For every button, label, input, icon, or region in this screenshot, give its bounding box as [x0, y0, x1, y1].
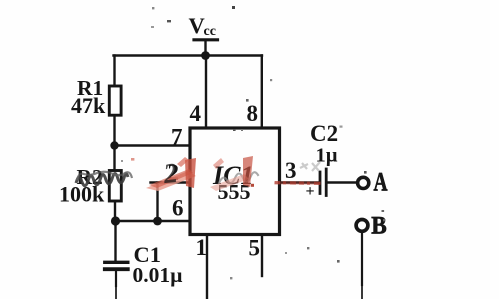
svg-text:A: A	[374, 168, 388, 197]
wire top rail	[114, 54, 263, 56]
terminal B	[356, 220, 368, 232]
wire node to R2	[113, 146, 115, 171]
svg-text:B: B	[371, 211, 387, 240]
svg-text:8: 8	[247, 101, 259, 126]
node junction R2-C1-pin6	[111, 216, 120, 225]
Vcc bar	[194, 38, 218, 41]
node junction pin2 vertical to pin6 wire	[153, 217, 162, 226]
wire C1 to bottom	[115, 271, 117, 286]
node junction R1-R2-pin7	[110, 141, 118, 149]
terminal A	[358, 177, 369, 188]
svg-text:0.01µ: 0.01µ	[133, 263, 184, 287]
wire pin 1 down	[206, 236, 208, 299]
wire B down	[361, 232, 363, 286]
red speck right of 555	[251, 184, 254, 187]
wire pin 2 vertical	[156, 183, 158, 222]
wire R1 branch down from rail	[113, 56, 115, 88]
scan noise specks	[121, 6, 385, 279]
svg-text:4: 4	[190, 101, 202, 126]
wire pin 7 horizontal	[115, 144, 191, 146]
gray cursive overlay on IC1	[219, 172, 258, 183]
Vcc stub	[204, 41, 206, 56]
svg-text:C2: C2	[310, 121, 338, 146]
red watermark swoosh over IC1	[210, 156, 253, 191]
red dashed watermark along pin 3 wire	[274, 181, 321, 185]
resistor R2	[109, 171, 121, 202]
svg-text:7: 7	[171, 125, 183, 150]
svg-text:6: 6	[172, 196, 184, 221]
svg-text:cc: cc	[204, 24, 216, 39]
svg-text:3: 3	[285, 158, 297, 183]
svg-text:+: +	[306, 183, 315, 200]
label Vcc	[189, 13, 216, 39]
node junction Vcc	[201, 51, 210, 60]
wire pin 2 horizontal	[151, 181, 191, 183]
wire R2 to node	[114, 202, 116, 222]
op-amp U1 IC box 555	[190, 128, 280, 235]
red watermark swoosh near pin 2	[146, 157, 196, 191]
wire pin 5 down	[261, 236, 263, 276]
wire pin 3 horizontal	[280, 181, 318, 183]
wire R1 to node	[113, 117, 115, 146]
wire pin 4 vertical	[205, 56, 207, 128]
svg-text:1: 1	[196, 235, 208, 260]
wire node to C1	[114, 221, 116, 261]
gray squiggle watermark over R2	[76, 172, 132, 186]
capacitor C1	[105, 262, 128, 269]
capacitor C2	[320, 169, 326, 196]
wire pin 8 vertical	[261, 56, 263, 128]
wire C2 to A	[328, 181, 357, 183]
wire pin 6 horizontal	[115, 220, 190, 222]
red speck left of watermark	[131, 158, 134, 161]
svg-text:47k: 47k	[71, 93, 106, 118]
svg-text:V: V	[189, 13, 205, 38]
svg-text:5: 5	[249, 236, 261, 261]
gray ghost marks near pin 3	[300, 162, 320, 171]
resistor R1	[109, 86, 121, 115]
